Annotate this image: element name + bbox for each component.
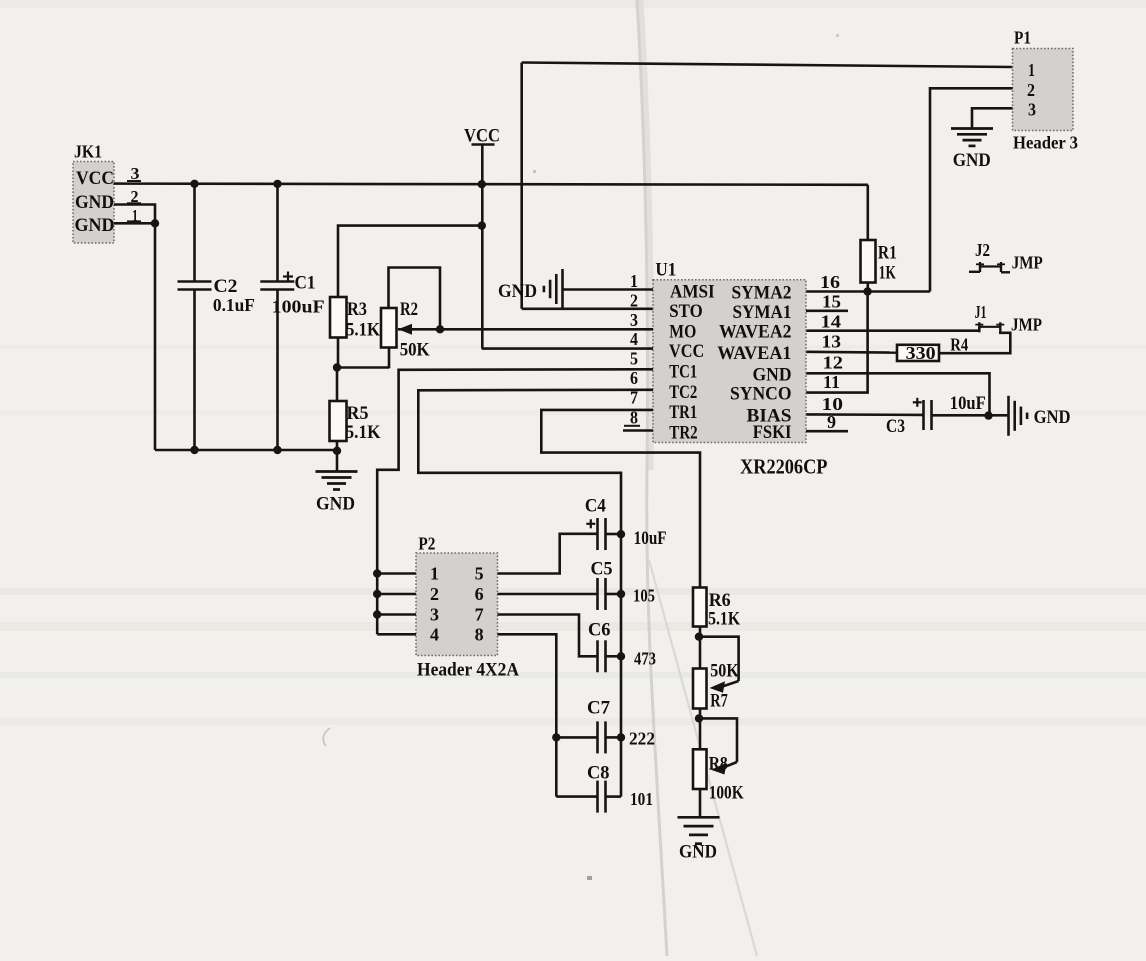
wire gnd to pin1 <box>563 288 654 291</box>
svg-text:10uF: 10uF <box>634 529 667 549</box>
svg-text:MO: MO <box>669 322 696 343</box>
wire C8 to bus <box>606 795 622 798</box>
wire R5 bottom <box>336 441 339 451</box>
wire P2 pin2 stub <box>377 593 416 596</box>
wire JK1 pin1 <box>114 222 155 225</box>
svg-text:P1: P1 <box>1014 28 1031 48</box>
svg-text:1K: 1K <box>879 262 896 283</box>
wire TR1 to R6 <box>541 410 700 588</box>
wire P2 pin6 to C5 <box>498 593 598 596</box>
wire VCC rail <box>114 184 869 185</box>
wire P1 pin2 vertical <box>930 88 1013 291</box>
wire C6 to bus <box>606 655 622 658</box>
wire to C7 <box>556 736 597 739</box>
JK1 pin 1 number <box>127 206 141 225</box>
svg-text:6: 6 <box>630 368 638 388</box>
node R5 gnd rail <box>333 447 341 455</box>
wire R1 top <box>866 185 869 240</box>
svg-text:222: 222 <box>629 729 655 749</box>
wire R5 gnd stem <box>336 451 339 471</box>
svg-text:C7: C7 <box>587 699 610 719</box>
wire R5 top <box>336 368 339 402</box>
svg-text:50K: 50K <box>400 340 430 361</box>
node P2 bus pin1 <box>373 569 381 577</box>
wire pin10 to C3 <box>806 413 924 416</box>
svg-text:SYNCO: SYNCO <box>730 384 792 405</box>
wire gnd bottom rail <box>155 449 337 452</box>
capacitor C1 <box>260 184 324 450</box>
capacitor C8 <box>587 764 653 813</box>
U1 pin 6 number <box>630 368 638 388</box>
wire JK1 gnd down <box>154 223 157 450</box>
P2 pin 6 number <box>475 584 484 604</box>
svg-text:0.1uF: 0.1uF <box>213 295 255 315</box>
node P2 bus pin3 <box>373 610 381 618</box>
U1 pin 15 stub <box>806 309 848 312</box>
svg-text:13: 13 <box>822 332 842 352</box>
svg-text:11: 11 <box>823 372 840 392</box>
wire P2 pin7 to C6 <box>498 615 598 657</box>
P1 label Header 3 <box>1013 133 1078 153</box>
wire R1 bottom <box>866 283 869 292</box>
P2 pin 4 number <box>430 624 439 644</box>
P2 pin 1 number <box>430 564 439 584</box>
wire C4 to bus <box>606 533 622 536</box>
svg-text:R8: R8 <box>709 754 728 775</box>
P1 pin 1 <box>1028 60 1035 80</box>
svg-text:6: 6 <box>475 584 484 604</box>
svg-text:SYMA1: SYMA1 <box>733 302 792 323</box>
P2 pin 7 number <box>475 605 484 625</box>
resistor R8 <box>693 749 744 803</box>
svg-text:1: 1 <box>430 564 439 584</box>
svg-text:JMP: JMP <box>1011 315 1042 335</box>
ground right of C3 <box>1009 396 1071 436</box>
svg-text:R5: R5 <box>347 403 369 424</box>
wire C3 to gnd node <box>932 414 1008 417</box>
svg-text:TR2: TR2 <box>669 423 697 444</box>
svg-text:3: 3 <box>1028 100 1036 120</box>
svg-text:101: 101 <box>630 789 653 809</box>
capacitor C5 <box>591 560 656 611</box>
svg-text:473: 473 <box>634 649 656 669</box>
node R3 vcc junction <box>478 221 486 229</box>
P2 pin 3 number <box>430 605 439 625</box>
svg-text:C5: C5 <box>591 560 613 580</box>
svg-text:VCC: VCC <box>669 341 704 362</box>
wire TC1 to P2 bus <box>377 369 653 634</box>
power VCC symbol <box>464 127 500 185</box>
wire J1 right to R4 <box>939 332 1010 353</box>
U1 pin 9 stub <box>806 430 848 433</box>
U1 pin 1 number <box>630 271 638 291</box>
svg-text:FSKI: FSKI <box>753 422 792 443</box>
resistor R7 <box>693 661 739 712</box>
svg-text:J2: J2 <box>975 240 990 260</box>
svg-text:7: 7 <box>475 605 484 625</box>
resistor R5 <box>330 401 381 443</box>
svg-text:4: 4 <box>630 329 638 349</box>
svg-text:GND: GND <box>75 216 115 236</box>
U1 pin 5 number <box>630 349 638 369</box>
U1 pin 10 number <box>822 394 844 414</box>
svg-text:R4: R4 <box>950 335 968 355</box>
node C2 bottom rail <box>190 446 198 454</box>
wire R3 bottom <box>337 338 340 368</box>
node VCC rail at C1 <box>273 180 281 188</box>
node R1 sync junction <box>863 287 871 295</box>
svg-text:GND: GND <box>679 842 717 863</box>
svg-text:SYMA2: SYMA2 <box>732 283 792 304</box>
wire sync down to pin11 <box>806 292 868 393</box>
svg-text:2: 2 <box>1027 80 1035 100</box>
wire R2 arrow to node <box>398 328 440 331</box>
svg-text:5.1K: 5.1K <box>708 609 740 630</box>
svg-text:9: 9 <box>827 412 836 432</box>
node C3 gnd junction <box>984 411 992 419</box>
node R7 R8 junction <box>695 714 703 722</box>
svg-text:C8: C8 <box>587 764 610 784</box>
R2 wiper arrow <box>398 324 412 335</box>
P2 label <box>417 661 520 681</box>
wire MO to R2 wiper <box>440 328 653 331</box>
node JK1 gnd junction <box>151 219 159 227</box>
svg-text:100K: 100K <box>709 783 744 804</box>
svg-text:GND: GND <box>953 150 991 171</box>
U1 pin 13 number <box>822 332 842 352</box>
svg-text:P2: P2 <box>418 533 435 553</box>
svg-text:2: 2 <box>430 584 439 604</box>
svg-text:R1: R1 <box>878 243 897 264</box>
ground under R8 <box>678 817 720 862</box>
wire C7 to bus <box>606 736 622 739</box>
svg-text:C6: C6 <box>588 621 611 641</box>
svg-text:GND: GND <box>316 494 355 515</box>
svg-text:JMP: JMP <box>1012 253 1043 273</box>
resistor R1 <box>861 240 897 283</box>
svg-text:16: 16 <box>820 272 840 292</box>
P2 pin 2 number <box>430 584 439 604</box>
wire P2 pin5 to C4 <box>498 534 598 574</box>
resistor R3 <box>330 297 380 341</box>
svg-text:330: 330 <box>906 343 936 363</box>
capacitor C3 <box>886 394 986 437</box>
wire pin12 gnd <box>806 373 990 416</box>
svg-text:JK1: JK1 <box>74 142 102 162</box>
svg-text:5: 5 <box>475 564 484 584</box>
svg-text:C4: C4 <box>585 497 606 517</box>
U1 pin 8 number <box>630 408 638 428</box>
wire to C8 <box>556 795 597 798</box>
JK1 pin 3 number <box>127 164 141 183</box>
svg-text:14: 14 <box>821 311 842 331</box>
svg-text:C1: C1 <box>295 273 316 294</box>
U1 part number <box>740 455 828 479</box>
svg-text:XR2206CP: XR2206CP <box>740 455 828 479</box>
svg-text:10uF: 10uF <box>950 394 986 414</box>
U1 pin 3 number <box>630 310 638 330</box>
wire P2 pin3 stub <box>377 613 416 616</box>
svg-text:12: 12 <box>823 353 844 373</box>
svg-text:J1: J1 <box>975 302 987 322</box>
node bus C4 <box>617 530 625 538</box>
U1 pin 15 number <box>822 292 841 312</box>
svg-text:1: 1 <box>630 271 638 291</box>
P1 pin 2 <box>1027 80 1035 100</box>
svg-text:15: 15 <box>822 292 841 312</box>
connector JK1 box <box>73 142 115 244</box>
capacitor C6 <box>588 621 656 673</box>
svg-text:R7: R7 <box>710 691 728 712</box>
resistor R6 <box>693 588 740 630</box>
svg-text:TC2: TC2 <box>669 382 697 403</box>
svg-text:TC1: TC1 <box>669 362 697 383</box>
svg-text:STO: STO <box>669 301 702 322</box>
wire TC2 to cap bus <box>418 390 653 797</box>
svg-text:3: 3 <box>630 310 638 330</box>
svg-text:Header 3: Header 3 <box>1013 133 1078 153</box>
wire R7 bottom <box>699 709 702 750</box>
jumper J2 <box>969 240 1043 273</box>
svg-text:105: 105 <box>633 586 655 606</box>
wire P2 pin8 down <box>498 634 557 796</box>
svg-text:AMSI: AMSI <box>670 282 715 303</box>
wire R6 bottom <box>699 627 702 669</box>
connector P2 box <box>416 533 498 655</box>
wire pin13 to R4 <box>806 350 897 353</box>
wire pin4 VCC <box>482 347 653 350</box>
capacitor C7 <box>587 699 655 754</box>
node P2 bus pin2 <box>373 590 381 598</box>
U1 pin 4 number <box>630 329 638 349</box>
capacitor C2 <box>178 184 255 450</box>
U1 pin 8 stub <box>623 426 653 431</box>
svg-text:5.1K: 5.1K <box>346 422 381 443</box>
node bus C6 <box>617 652 625 660</box>
svg-text:100uF: 100uF <box>272 296 325 316</box>
capacitor C4 <box>585 497 667 551</box>
wire VCC stem down to pin4 <box>481 184 484 348</box>
P2 pin 5 number <box>475 564 484 584</box>
wire R8 bottom <box>699 789 702 817</box>
svg-text:GND: GND <box>753 364 792 385</box>
wire P1 pin3 to gnd <box>972 108 1013 128</box>
wire R3 top to VCC <box>338 226 482 297</box>
svg-text:8: 8 <box>475 624 484 644</box>
node pin8 C7 <box>552 733 560 741</box>
svg-text:TR1: TR1 <box>669 402 697 423</box>
connector P1 box <box>1013 28 1074 131</box>
svg-text:Header 4X2A: Header 4X2A <box>417 661 520 681</box>
U1 pin 14 number <box>821 311 842 331</box>
resistor R4 <box>897 335 968 364</box>
wire C5 to bus <box>606 593 622 596</box>
JK1 pin 2 number <box>127 187 141 206</box>
svg-text:R2: R2 <box>400 299 418 320</box>
svg-text:4: 4 <box>430 624 439 644</box>
op-amp IC U1 XR2206CP body <box>653 261 806 444</box>
svg-text:WAVEA1: WAVEA1 <box>717 343 791 364</box>
node C1 bottom rail <box>273 446 281 454</box>
node R3 R2 R5 junction <box>333 363 341 371</box>
U1 pin 7 number <box>630 388 638 408</box>
resistor R2 <box>381 299 430 361</box>
wire pin16 to R1 <box>806 290 868 293</box>
P1 pin 3 <box>1028 100 1036 120</box>
wire P1 pin1 to STO <box>522 63 1013 309</box>
svg-text:C2: C2 <box>214 276 238 297</box>
node R2 wiper MO <box>436 325 444 333</box>
svg-text:GND: GND <box>498 281 537 302</box>
svg-text:2: 2 <box>630 290 638 310</box>
svg-text:R3: R3 <box>347 299 367 320</box>
wire P2 pin4 stub <box>377 633 416 636</box>
node R6 R7 junction <box>695 633 703 641</box>
ground at pin1 AMSI <box>498 269 563 309</box>
node bus C5 <box>617 590 625 598</box>
svg-text:3: 3 <box>430 605 439 625</box>
wire R2 wiper loop <box>389 268 441 330</box>
R8 wiper loop <box>699 718 737 774</box>
U1 pin 12 number <box>823 353 844 373</box>
svg-text:1: 1 <box>1028 60 1035 80</box>
svg-text:U1: U1 <box>655 261 676 281</box>
jumper J1 <box>975 302 1043 335</box>
ground under P1 pin3 <box>951 129 993 172</box>
wire P2 pin1 stub <box>377 572 416 575</box>
svg-text:50K: 50K <box>710 661 739 682</box>
svg-text:5.1K: 5.1K <box>346 320 380 341</box>
svg-text:GND: GND <box>75 193 114 213</box>
ground under R5 <box>316 472 358 515</box>
wire JK1 pin2 to pin1 junction <box>114 205 155 224</box>
svg-text:GND: GND <box>1034 407 1071 428</box>
node VCC rail at VCC symbol <box>478 180 486 188</box>
svg-text:C3: C3 <box>886 417 905 437</box>
node VCC rail at C2 <box>190 180 198 188</box>
wire R1 to P1 pin2 <box>868 290 930 293</box>
node bus C7 <box>617 733 625 741</box>
wire pin14 to J1 <box>806 327 979 331</box>
U1 pin 11 number <box>823 372 840 392</box>
U1 pin 9 number <box>827 412 836 432</box>
wire R2 bottom <box>388 348 391 369</box>
svg-text:5: 5 <box>630 349 638 369</box>
svg-text:VCC: VCC <box>76 169 114 189</box>
R7 wiper loop <box>699 637 739 693</box>
wire R3-R2 bottom tie <box>337 366 389 369</box>
U1 pin 16 number <box>820 272 840 292</box>
svg-text:WAVEA2: WAVEA2 <box>719 322 792 343</box>
U1 pin 2 number <box>630 290 638 310</box>
P2 pin 8 number <box>475 624 484 644</box>
